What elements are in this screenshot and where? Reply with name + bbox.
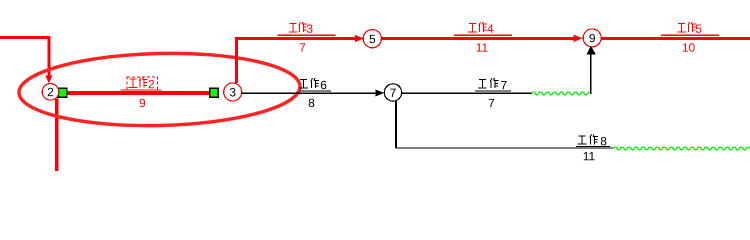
svg-text:2: 2 <box>148 77 155 91</box>
highlight ellipse (red marker oval) <box>18 50 301 128</box>
arrowhead into node 9 (right) <box>574 35 583 42</box>
edge 工作6: black line node3 to node7 <box>242 93 376 94</box>
label 工作6 with underline <box>299 78 318 88</box>
arrowhead into node 9 (up, black) <box>586 46 595 55</box>
svg-text:3: 3 <box>306 22 313 36</box>
svg-text:4: 4 <box>487 22 494 36</box>
free float wavy green line of 工作7 <box>532 92 592 95</box>
underline of 工作6 <box>300 91 331 92</box>
wire: red entry line from left edge, corner down toward node 2 <box>0 36 50 76</box>
arrowhead into node 5 (right) <box>355 35 364 42</box>
wire: black vertical from node 7 down, corner right (edge 工作8) <box>395 101 397 148</box>
svg-text:7: 7 <box>488 96 495 110</box>
marquee dashed rect around 工作2 <box>127 77 158 90</box>
wire: black vertical up to node 9 <box>590 55 592 94</box>
label 工作8 with underline <box>578 134 598 144</box>
edge 工作4: red line node5 to node9 <box>381 37 574 40</box>
svg-text:3: 3 <box>229 85 236 99</box>
wire: red vertical from node 3 up and corner <box>235 39 355 84</box>
selection handle (green square) at node 2 <box>58 88 67 97</box>
selection handle (green square) at node 3 <box>210 88 219 97</box>
label 工作7 with underline <box>478 78 498 88</box>
edge 工作7: black line from node7 <box>402 93 532 94</box>
edge 工作2 selected: thick red line between handles <box>66 91 210 95</box>
free float wavy green line of 工作8 <box>614 147 750 150</box>
svg-text:5: 5 <box>695 22 702 36</box>
node 5 circle <box>363 30 381 48</box>
label 工作3 with underline <box>289 22 307 32</box>
underline of 工作2 <box>121 89 162 91</box>
wire: red vertical line below node 2 to bottom edge <box>55 99 58 172</box>
arrowhead into node 7 (right) <box>376 90 385 97</box>
underline of 工作8 <box>576 146 610 147</box>
label 工作2 (selected, with dashed marquee) <box>129 78 148 88</box>
svg-text:11: 11 <box>583 149 596 163</box>
arrowhead into node 2 (down) <box>45 75 52 83</box>
label 工作5 with underline <box>677 22 696 32</box>
underline of 工作7 <box>475 91 511 92</box>
svg-text:11: 11 <box>476 41 489 55</box>
svg-text:9: 9 <box>589 31 596 45</box>
underline of 工作5 <box>661 34 719 36</box>
svg-text:2: 2 <box>47 85 54 99</box>
underline of 工作4 <box>454 34 512 36</box>
svg-text:10: 10 <box>682 41 696 55</box>
node 3 circle <box>224 83 242 101</box>
svg-text:7: 7 <box>390 86 397 100</box>
svg-text:7: 7 <box>500 78 507 92</box>
svg-text:6: 6 <box>320 78 327 92</box>
underline of 工作3 <box>278 34 336 36</box>
svg-text:7: 7 <box>299 41 306 55</box>
edge 工作5: red line node9 to right edge <box>601 37 750 40</box>
label 工作4 with underline <box>468 22 487 32</box>
node 2 circle <box>42 84 59 101</box>
node 7 circle <box>384 84 401 101</box>
svg-text:9: 9 <box>139 96 146 110</box>
svg-text:8: 8 <box>308 96 315 110</box>
node 9 circle <box>583 29 601 47</box>
svg-text:5: 5 <box>369 32 376 46</box>
